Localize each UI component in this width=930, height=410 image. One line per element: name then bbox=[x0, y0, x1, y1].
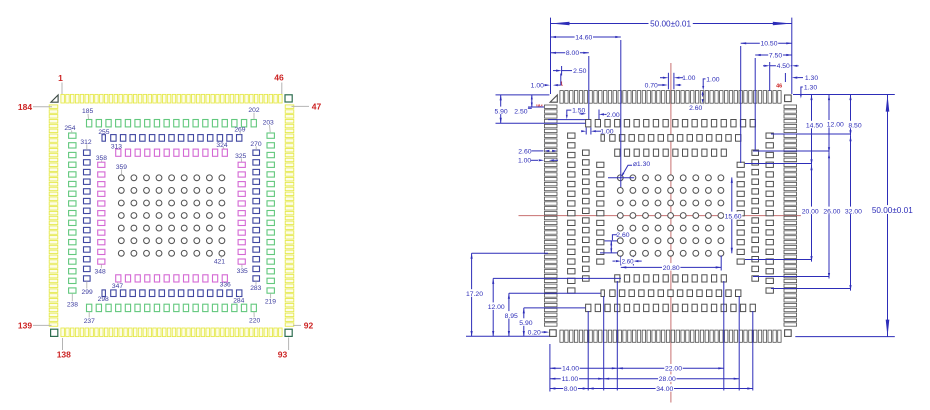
svg-text:8.95: 8.95 bbox=[505, 313, 518, 320]
svg-text:1.30: 1.30 bbox=[804, 84, 817, 91]
svg-text:20.00: 20.00 bbox=[802, 208, 819, 215]
svg-text:0.70: 0.70 bbox=[645, 82, 658, 89]
svg-text:219: 219 bbox=[265, 299, 276, 306]
svg-text:299: 299 bbox=[82, 289, 93, 296]
svg-text:312: 312 bbox=[80, 139, 91, 146]
svg-text:14.00: 14.00 bbox=[562, 366, 579, 373]
svg-text:138: 138 bbox=[57, 350, 71, 360]
svg-text:20.80: 20.80 bbox=[663, 265, 680, 272]
svg-text:22.00: 22.00 bbox=[665, 366, 682, 373]
svg-text:1.00: 1.00 bbox=[518, 158, 531, 165]
svg-text:1: 1 bbox=[58, 73, 63, 83]
svg-text:2.60: 2.60 bbox=[518, 148, 531, 155]
svg-text:139: 139 bbox=[18, 320, 32, 330]
svg-text:1.00: 1.00 bbox=[682, 75, 695, 82]
svg-text:8.50: 8.50 bbox=[848, 123, 861, 130]
svg-text:237: 237 bbox=[84, 318, 95, 325]
svg-text:358: 358 bbox=[96, 155, 107, 162]
svg-text:46: 46 bbox=[776, 83, 782, 89]
svg-text:2.00: 2.00 bbox=[606, 112, 619, 119]
svg-text:269: 269 bbox=[234, 126, 245, 133]
svg-text:2.60: 2.60 bbox=[689, 105, 702, 112]
svg-text:47: 47 bbox=[312, 102, 322, 112]
svg-text:34.00: 34.00 bbox=[656, 386, 673, 393]
svg-text:359: 359 bbox=[116, 164, 127, 171]
svg-text:92: 92 bbox=[304, 320, 314, 330]
svg-text:2.60: 2.60 bbox=[616, 232, 629, 239]
svg-text:283: 283 bbox=[250, 285, 261, 292]
svg-text:336: 336 bbox=[220, 282, 231, 289]
svg-text:1.00: 1.00 bbox=[706, 76, 719, 83]
svg-text:26.00: 26.00 bbox=[823, 208, 840, 215]
svg-text:255: 255 bbox=[98, 129, 109, 136]
svg-text:184: 184 bbox=[18, 102, 32, 112]
svg-text:5.90: 5.90 bbox=[494, 108, 507, 115]
svg-text:0.20: 0.20 bbox=[528, 330, 541, 337]
svg-text:28.00: 28.00 bbox=[659, 376, 676, 383]
svg-text:32.00: 32.00 bbox=[845, 208, 862, 215]
svg-text:50.00±0.01: 50.00±0.01 bbox=[872, 206, 913, 215]
svg-text:2.60: 2.60 bbox=[622, 258, 635, 265]
svg-text:238: 238 bbox=[67, 302, 78, 309]
svg-text:93: 93 bbox=[278, 350, 288, 360]
svg-text:50.00±0.01: 50.00±0.01 bbox=[650, 20, 691, 29]
svg-text:347: 347 bbox=[112, 283, 123, 290]
svg-text:15.60: 15.60 bbox=[725, 213, 742, 220]
svg-text:1.00: 1.00 bbox=[600, 129, 613, 136]
svg-text:185: 185 bbox=[82, 108, 93, 115]
svg-text:1.00: 1.00 bbox=[531, 83, 544, 90]
svg-text:184: 184 bbox=[536, 104, 544, 109]
svg-text:11.00: 11.00 bbox=[562, 376, 579, 383]
svg-text:203: 203 bbox=[263, 120, 274, 127]
svg-text:12.00: 12.00 bbox=[488, 304, 505, 311]
svg-text:17.20: 17.20 bbox=[466, 291, 483, 298]
svg-text:1.30: 1.30 bbox=[805, 75, 818, 82]
svg-text:348: 348 bbox=[95, 268, 106, 275]
svg-text:335: 335 bbox=[237, 268, 248, 275]
svg-text:8.00: 8.00 bbox=[566, 50, 579, 57]
svg-text:4.50: 4.50 bbox=[777, 63, 790, 70]
svg-text:⌀1.30: ⌀1.30 bbox=[633, 161, 651, 168]
svg-text:220: 220 bbox=[249, 318, 260, 325]
svg-text:324: 324 bbox=[216, 142, 227, 149]
svg-text:7.50: 7.50 bbox=[769, 52, 782, 59]
svg-text:298: 298 bbox=[98, 296, 109, 303]
svg-text:12.00: 12.00 bbox=[827, 122, 844, 129]
svg-text:5.90: 5.90 bbox=[519, 320, 532, 327]
svg-text:2.50: 2.50 bbox=[573, 68, 586, 75]
svg-text:2.50: 2.50 bbox=[514, 109, 527, 116]
svg-text:10.50: 10.50 bbox=[760, 41, 777, 48]
svg-text:254: 254 bbox=[64, 125, 75, 132]
svg-text:270: 270 bbox=[250, 141, 261, 148]
svg-text:14.60: 14.60 bbox=[575, 34, 592, 41]
svg-text:421: 421 bbox=[214, 259, 225, 266]
svg-text:46: 46 bbox=[274, 73, 284, 83]
svg-text:8.00: 8.00 bbox=[564, 386, 577, 393]
svg-text:325: 325 bbox=[235, 153, 246, 160]
svg-text:284: 284 bbox=[233, 298, 244, 305]
svg-text:14.50: 14.50 bbox=[806, 123, 823, 130]
svg-text:202: 202 bbox=[248, 107, 259, 114]
svg-text:313: 313 bbox=[111, 144, 122, 151]
